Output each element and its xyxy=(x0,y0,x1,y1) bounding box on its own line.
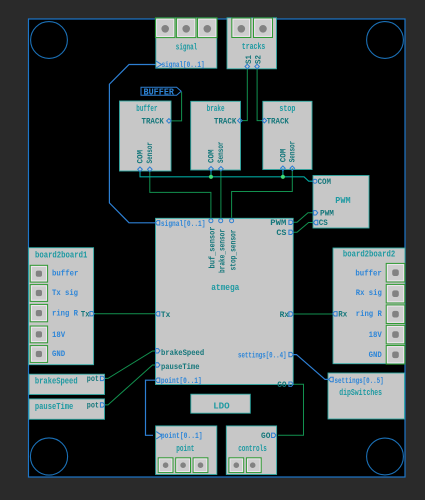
svg-text:LDO: LDO xyxy=(213,401,230,412)
svg-text:signal[0..1]: signal[0..1] xyxy=(161,219,206,229)
svg-text:TRACK: TRACK xyxy=(267,117,290,127)
svg-text:buffer: buffer xyxy=(355,269,381,279)
svg-text:COM: COM xyxy=(206,150,216,164)
svg-text:Tx: Tx xyxy=(161,310,170,320)
svg-text:brake: brake xyxy=(207,104,225,114)
svg-text:stop_sensor: stop_sensor xyxy=(229,230,239,271)
svg-text:GO: GO xyxy=(261,431,270,441)
svg-text:dipSwitches: dipSwitches xyxy=(339,388,382,398)
svg-text:S2: S2 xyxy=(254,55,264,64)
svg-text:Rx: Rx xyxy=(338,310,347,320)
svg-text:board2board2: board2board2 xyxy=(343,250,395,260)
svg-text:buffer: buffer xyxy=(52,269,78,279)
svg-text:buf_sensor: buf_sensor xyxy=(208,227,218,269)
svg-text:board2board1: board2board1 xyxy=(35,250,88,260)
svg-text:S1: S1 xyxy=(244,55,254,64)
svg-text:brake_sensor: brake_sensor xyxy=(218,229,228,273)
svg-text:settings[0..5]: settings[0..5] xyxy=(335,376,384,386)
svg-text:PWM: PWM xyxy=(320,208,334,218)
svg-text:PWM: PWM xyxy=(335,195,351,206)
svg-text:Sensor: Sensor xyxy=(216,142,226,164)
svg-text:Tx: Tx xyxy=(81,310,90,320)
svg-text:Sensor: Sensor xyxy=(145,142,155,164)
svg-text:buffer: buffer xyxy=(136,104,157,114)
svg-text:18V: 18V xyxy=(52,330,66,340)
svg-text:signal: signal xyxy=(176,42,198,52)
svg-text:point[0..1]: point[0..1] xyxy=(161,431,203,441)
svg-text:CS: CS xyxy=(319,218,328,228)
svg-text:CS: CS xyxy=(276,228,286,238)
svg-text:Rx sig: Rx sig xyxy=(356,288,382,298)
svg-text:controls: controls xyxy=(238,444,267,454)
svg-text:stop: stop xyxy=(279,104,295,114)
svg-text:TRACK: TRACK xyxy=(214,117,237,127)
svg-text:BUFFER: BUFFER xyxy=(144,87,175,97)
svg-text:COM: COM xyxy=(318,177,331,187)
svg-text:18V: 18V xyxy=(369,330,383,340)
svg-text:GND: GND xyxy=(52,349,65,359)
svg-text:PWM: PWM xyxy=(270,218,286,228)
svg-text:point: point xyxy=(176,444,194,454)
svg-text:ring R: ring R xyxy=(52,309,79,319)
svg-text:pauseTime: pauseTime xyxy=(161,362,200,372)
svg-text:ring R: ring R xyxy=(356,309,383,319)
svg-text:Tx sig: Tx sig xyxy=(52,288,78,298)
svg-text:tracks: tracks xyxy=(242,42,265,52)
svg-text:GO: GO xyxy=(277,380,286,390)
svg-text:COM: COM xyxy=(135,150,145,164)
svg-text:TRACK: TRACK xyxy=(142,117,165,127)
svg-text:brakeSpeed: brakeSpeed xyxy=(161,348,204,358)
svg-text:pot: pot xyxy=(87,400,99,410)
svg-text:pauseTime: pauseTime xyxy=(35,402,73,412)
svg-text:brakeSpeed: brakeSpeed xyxy=(35,376,78,386)
svg-text:signal[0..1]: signal[0..1] xyxy=(162,60,205,70)
svg-text:Sensor: Sensor xyxy=(288,141,298,163)
svg-text:pot: pot xyxy=(87,374,99,384)
svg-text:Rx: Rx xyxy=(280,310,289,320)
svg-text:atmega: atmega xyxy=(211,282,239,293)
svg-text:point[0..1]: point[0..1] xyxy=(161,376,202,386)
svg-text:settings[0..4]: settings[0..4] xyxy=(238,351,287,361)
svg-text:GND: GND xyxy=(369,350,382,360)
